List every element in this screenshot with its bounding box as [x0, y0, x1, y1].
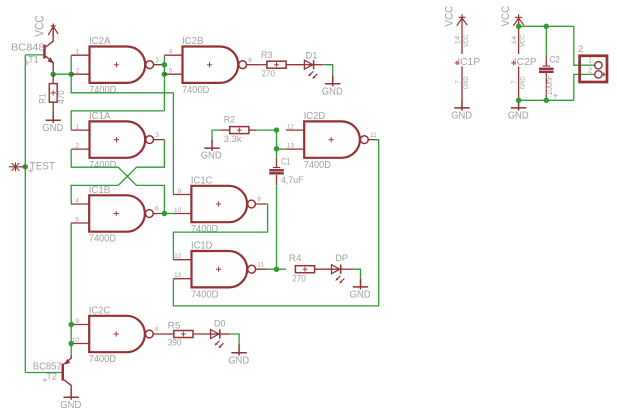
svg-text:7400D: 7400D	[182, 84, 210, 96]
svg-text:2: 2	[588, 66, 592, 75]
nand gate IC1D 7400D	[192, 251, 248, 287]
svg-text:14: 14	[456, 35, 462, 44]
wire IC1C output loop to IC1D pin12	[173, 204, 267, 260]
svg-text:GND: GND	[322, 85, 343, 97]
svg-text:1: 1	[588, 56, 592, 65]
label IC1P	[455, 56, 481, 68]
wire IC1B output to IC1C pin10	[164, 213, 173, 215]
wire IC2D output feedback loop	[173, 140, 378, 306]
wire to IC2D pin13	[277, 148, 287, 150]
svg-text:C1: C1	[281, 157, 291, 168]
svg-text:11: 11	[257, 261, 264, 268]
svg-text:D0: D0	[214, 319, 226, 330]
wire VCC bus top	[519, 25, 574, 27]
svg-text:270: 270	[292, 274, 306, 285]
wire D1 cathode	[314, 64, 323, 66]
wire IC1D output to R4	[266, 268, 286, 270]
svg-text:3,3k: 3,3k	[224, 134, 242, 145]
svg-text:BC848: BC848	[11, 42, 45, 54]
led D1	[304, 64, 314, 66]
svg-text:C2: C2	[550, 55, 561, 66]
ground symbol below D0	[231, 344, 246, 355]
svg-text:IC2C: IC2C	[89, 304, 111, 316]
wire C2 bottom	[545, 97, 547, 100]
svg-text:6: 6	[155, 206, 159, 213]
capacitor C2 100nF	[539, 56, 554, 97]
wire IC2C pin10 node to T2 emitter	[70, 344, 72, 355]
ground symbol below DP	[353, 278, 368, 289]
svg-text:GND: GND	[42, 122, 63, 134]
svg-text:13: 13	[174, 272, 182, 279]
wire C2 top	[545, 26, 547, 56]
nand gate IC2B 7400D	[183, 47, 239, 83]
svg-text:GND: GND	[520, 76, 526, 90]
IC2D pin numbers 12,13,11	[287, 124, 377, 150]
svg-text:R2: R2	[224, 114, 235, 125]
wire R2 left to ground	[212, 130, 220, 140]
svg-text:6: 6	[248, 57, 252, 64]
wire T1 base to TEST column	[25, 54, 43, 56]
wire to IC1B pin4	[71, 185, 118, 204]
svg-text:270: 270	[262, 68, 276, 79]
wire IC2A output node column	[163, 55, 165, 111]
wire down to IC1C pin 9	[172, 93, 174, 195]
wire IC2B output to R3	[257, 64, 267, 66]
transistor T2 BC857	[62, 354, 72, 389]
svg-text:T1: T1	[28, 55, 39, 66]
wire D0 cathode to ground	[220, 333, 230, 335]
svg-text:IC1D: IC1D	[191, 240, 213, 252]
svg-text:1: 1	[76, 49, 80, 56]
svg-text:BC857: BC857	[33, 360, 62, 372]
svg-text:5: 5	[75, 217, 79, 224]
wire R5 to D0	[193, 333, 211, 335]
wire IC1A pin2 loop	[71, 149, 118, 167]
svg-text:VCC: VCC	[33, 15, 47, 37]
ground symbol below D1	[325, 75, 340, 86]
junction IC2P VCC tap	[516, 24, 522, 30]
wire DP cathode to ground	[341, 268, 353, 270]
IC1D pin numbers 12,13,11	[174, 253, 264, 279]
svg-text:VCC: VCC	[520, 34, 526, 48]
svg-text:IC2P: IC2P	[514, 56, 537, 68]
svg-text:11: 11	[370, 132, 377, 139]
svg-text:GND: GND	[464, 76, 470, 90]
svg-text:470: 470	[56, 90, 67, 104]
wire IC2D input column to C1	[276, 130, 278, 158]
ground symbol below T2	[64, 389, 79, 400]
nand gate IC1B 7400D	[89, 195, 145, 231]
wire IC2A output to IC1A pin1	[71, 111, 164, 130]
svg-text:9: 9	[178, 188, 182, 195]
wire R2 to IC2D inputs	[256, 129, 276, 131]
svg-text:GND: GND	[228, 354, 249, 366]
node TEST junction	[23, 164, 29, 170]
junction IC2C pin10	[68, 341, 74, 347]
svg-text:7: 7	[456, 80, 462, 84]
svg-text:10: 10	[174, 207, 182, 214]
resistor R3 270	[267, 61, 286, 68]
resistor R2 3.3k	[220, 127, 256, 134]
svg-text:5: 5	[169, 68, 173, 75]
wire crossing diagonal to IC1B output side	[118, 167, 136, 185]
svg-text:7400D: 7400D	[304, 159, 332, 171]
connector pin numbers	[588, 56, 592, 75]
svg-text:7400D: 7400D	[89, 159, 117, 171]
led DP	[331, 268, 341, 270]
wire IC2C output to R5	[164, 333, 174, 335]
svg-text:14: 14	[512, 35, 518, 44]
svg-text:IC2B: IC2B	[182, 35, 204, 47]
wire C1 to IC1D output node	[276, 185, 278, 269]
wire IC1A output to crossing	[137, 140, 165, 168]
svg-text:IC2A: IC2A	[89, 35, 111, 47]
svg-text:4: 4	[75, 198, 79, 205]
nand gate IC2D 7400D	[304, 121, 360, 157]
junction IC1B output node	[162, 211, 168, 217]
junction IC2D pin13 node	[274, 146, 280, 152]
svg-text:R1: R1	[38, 94, 49, 104]
svg-text:4,7uF: 4,7uF	[281, 175, 304, 186]
svg-text:IC1C: IC1C	[191, 174, 213, 186]
svg-text:8: 8	[257, 196, 261, 203]
power VCC symbol at T1	[48, 24, 58, 36]
led D0	[210, 333, 220, 335]
svg-text:7400D: 7400D	[191, 223, 219, 235]
wire TEST vertical column	[24, 55, 26, 373]
junction IC2D pin12 node	[274, 127, 280, 133]
svg-text:7400D: 7400D	[191, 288, 219, 300]
wire GND bus to connector pin2	[574, 74, 595, 100]
label TEST	[28, 160, 55, 173]
ground symbol IC1P	[454, 99, 469, 110]
IC2B pin numbers 4,5,6	[169, 49, 253, 75]
wire D1 to ground	[323, 65, 333, 76]
junction IC1D output node	[274, 266, 280, 272]
svg-text:GND: GND	[350, 289, 371, 301]
svg-text:1: 1	[76, 124, 80, 131]
svg-text:13: 13	[287, 143, 295, 150]
IC2A pin numbers 1,2,3	[76, 49, 160, 75]
ground symbol at R2	[204, 140, 219, 151]
power IC1P hidden supply pins	[457, 14, 468, 99]
junction IC2B pin5 tap	[162, 71, 168, 77]
junction T1 emitter node	[50, 71, 56, 77]
svg-text:GND: GND	[201, 150, 222, 162]
svg-text:2: 2	[76, 68, 80, 75]
svg-text:T2: T2	[46, 372, 57, 383]
svg-text:8: 8	[155, 326, 159, 333]
junction IC2A input node	[68, 71, 74, 77]
wire R4 to DP	[315, 268, 332, 270]
svg-text:7400D: 7400D	[89, 84, 117, 96]
svg-text:IC1P: IC1P	[457, 56, 480, 68]
svg-text:4: 4	[169, 49, 173, 56]
IC1B pin numbers 4,5,6	[75, 198, 159, 224]
svg-text:3: 3	[155, 132, 159, 139]
label T2	[43, 372, 57, 383]
junction C2 top tap	[544, 24, 550, 30]
IC1A pin numbers 1,2,3	[76, 124, 160, 150]
nand gate IC2C 7400D	[89, 316, 145, 352]
ground symbol IC2P	[511, 99, 526, 110]
svg-text:3: 3	[155, 57, 159, 64]
ground symbol below R1	[46, 112, 61, 123]
test point TEST symbol	[9, 162, 26, 171]
wire T2 base	[25, 372, 61, 374]
nand gate IC2A 7400D	[90, 47, 146, 83]
wire IC2A pin1 column	[70, 55, 72, 74]
wire GND bus bottom	[519, 99, 574, 101]
junction IC2A output to IC2B pin4	[162, 62, 168, 68]
power IC2P hidden supply pins	[513, 14, 524, 99]
connector X pin header	[580, 56, 607, 82]
svg-text:2: 2	[76, 143, 80, 150]
capacitor C1 4,7uF	[269, 158, 284, 185]
svg-text:VCC: VCC	[500, 6, 512, 27]
resistor R4 270	[295, 266, 314, 273]
IC2C pin numbers 9,10,8	[72, 318, 159, 344]
wire IC1B pin5 down to IC2C inputs	[70, 223, 72, 344]
svg-text:7400D: 7400D	[89, 233, 117, 245]
node A wire T1 emitter to IC2A inputs	[53, 73, 71, 75]
svg-text:IC1B: IC1B	[89, 184, 111, 196]
wire crossing diagonal to IC1B pin4 side	[118, 167, 136, 185]
svg-text:2: 2	[578, 44, 583, 55]
svg-text:R3: R3	[261, 50, 273, 61]
wire IC2A inputs down to IC1C pin9 net	[71, 74, 173, 93]
transistor T1 BC848	[43, 28, 53, 74]
svg-text:GND: GND	[451, 110, 472, 122]
svg-text:GND: GND	[508, 110, 529, 122]
label IC2P	[511, 56, 537, 68]
svg-text:DP: DP	[335, 253, 348, 264]
wire VCC bus to connector pin1	[574, 26, 595, 65]
svg-text:12: 12	[287, 124, 295, 131]
IC1C pin numbers 9,10,8	[174, 188, 261, 214]
junction IC2C pin9	[68, 322, 74, 328]
svg-text:7400D: 7400D	[89, 353, 117, 365]
resistor R5 390	[174, 331, 193, 338]
svg-text:R4: R4	[289, 253, 302, 264]
svg-text:IC1A: IC1A	[89, 110, 111, 122]
nand gate IC1A 7400D	[90, 121, 146, 157]
resistor R1 470	[49, 74, 57, 112]
wire crossing to IC1B output node	[137, 185, 165, 213]
svg-text:7: 7	[512, 80, 518, 84]
svg-text:IC2D: IC2D	[304, 110, 326, 122]
svg-text:D1: D1	[306, 51, 318, 62]
svg-text:390: 390	[168, 337, 182, 348]
svg-text:12: 12	[174, 253, 182, 260]
wire R3 to D1	[286, 64, 304, 66]
svg-text:TEST: TEST	[30, 160, 55, 172]
svg-text:9: 9	[75, 318, 79, 325]
svg-text:+: +	[553, 91, 558, 101]
junction C2 bottom tap	[544, 98, 550, 104]
junction IC2P GND tap	[516, 98, 522, 104]
nand gate IC1C 7400D	[191, 186, 247, 222]
svg-text:VCC: VCC	[464, 34, 470, 48]
svg-text:GND: GND	[60, 399, 81, 411]
label T1	[24, 55, 38, 66]
svg-text:VCC: VCC	[443, 6, 455, 27]
svg-text:R5: R5	[168, 320, 181, 331]
